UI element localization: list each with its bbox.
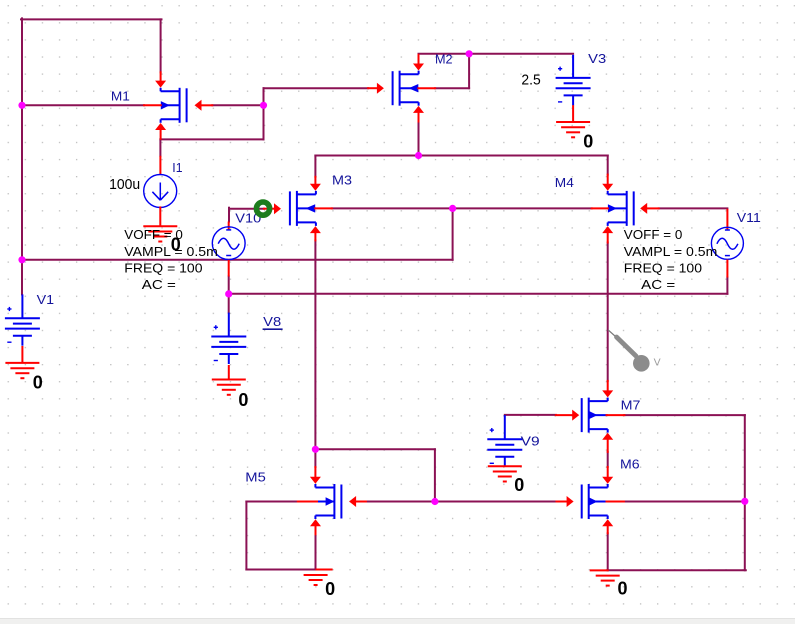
V10 params text (124, 227, 218, 292)
M7 bulk pin (607, 414, 625, 416)
I1 value label 100u (109, 176, 140, 193)
M4 source pin (602, 226, 613, 242)
battery V3 (556, 55, 591, 106)
M6 source pin (602, 519, 613, 533)
M5 source pin (310, 519, 321, 534)
wire M1 gate to node (212, 104, 263, 106)
M2 label (435, 52, 453, 67)
ground 0 below V3 (556, 122, 590, 137)
wire M5 gate to M6 gate (366, 501, 557, 503)
wire bulk rail M3-M4 (332, 207, 592, 209)
svg-text:I1: I1 (172, 160, 182, 175)
svg-text:2.5: 2.5 (521, 71, 540, 88)
V11 label (737, 210, 761, 225)
M3 source pin (310, 226, 321, 240)
M2 bulk pin (418, 87, 435, 89)
svg-text:VAMPL = 0.5m: VAMPL = 0.5m (624, 244, 718, 259)
bottom gray bar (0, 618, 795, 624)
svg-text:VOFF = 0: VOFF = 0 (624, 227, 683, 242)
ground label 0 (M6) (618, 578, 628, 598)
wire M5 bulk loop bottom (246, 569, 315, 571)
V3 label (588, 51, 606, 66)
wire M7 bulk horizontal (624, 414, 744, 416)
M6 gate pin (557, 496, 574, 507)
wire mid rail M3-M2-M4 (315, 155, 607, 157)
ground 0 below V1 (5, 363, 39, 378)
M2 source pin (413, 106, 424, 122)
battery V9 (487, 415, 522, 467)
wire M3 source vertical long (314, 240, 316, 449)
wire M4 source vertical long (607, 243, 609, 381)
wire node A vertical (263, 88, 265, 139)
junction dot 4 (415, 152, 422, 159)
M4 gate pin (640, 203, 659, 214)
ground label 0 (V1) (33, 372, 43, 392)
junction dot 8 (312, 446, 319, 453)
svg-text:0: 0 (33, 372, 43, 392)
voltage probe marker (608, 330, 661, 372)
svg-text:0: 0 (325, 579, 335, 599)
svg-text:V3: V3 (588, 51, 606, 66)
wire left rail vertical to V1 (21, 18, 23, 294)
wire V10 top vertical (228, 208, 230, 222)
wire M6 source to ground (607, 533, 609, 570)
M5 label (245, 469, 265, 484)
transistor M1 (161, 88, 187, 123)
transistor M5 (315, 484, 341, 519)
ground 0 below M5 (304, 575, 328, 585)
M5 gate pin (349, 496, 366, 507)
junction dot 2 (18, 256, 25, 263)
M3 drain pin (310, 177, 321, 191)
M7 gate pin (556, 410, 579, 421)
transistor M7 (582, 398, 608, 433)
wire M5 gate link vertical (434, 449, 436, 501)
ground label 0 (I1) (171, 235, 181, 255)
ground label 0 (M5) (325, 579, 335, 599)
wire M2 bulk horizontal (435, 87, 469, 89)
wire M5 bulk loop horizontal (246, 501, 297, 503)
M5 ground stem red tip (316, 569, 333, 571)
V1 label (37, 292, 55, 307)
wire M6 bulk to right rail (624, 501, 745, 503)
M1 label (111, 89, 130, 104)
M6 bulk pin (607, 501, 624, 503)
transistor M3 (290, 191, 316, 226)
M6 drain pin (602, 467, 613, 484)
transistor M6 (582, 484, 608, 519)
svg-text:M6: M6 (620, 457, 640, 472)
M1 bulk pin (144, 104, 161, 106)
wire M1 source to I1 (159, 139, 161, 155)
wire bulk rail drop (452, 208, 454, 259)
wire M1 source loop horizontal (160, 138, 263, 140)
current marker on M3 gate (256, 202, 269, 215)
junction dot 7 (225, 290, 232, 297)
wire M5 drain stub vertical (314, 449, 316, 467)
wire M4 drain vertical (607, 156, 609, 175)
M6 ground bar (590, 569, 609, 571)
V8 ground stem (228, 365, 230, 380)
svg-text:VOFF = 0: VOFF = 0 (124, 227, 183, 242)
wire M5 drain to gate link horizontal (315, 448, 435, 450)
M6 label (620, 457, 640, 472)
wire M1 drain vertical (160, 19, 162, 72)
transistor M4 (608, 191, 634, 226)
M3 bulk pin (315, 207, 332, 209)
svg-text:M5: M5 (245, 469, 265, 484)
wire bottom ground rail (608, 569, 746, 571)
V1 ground stem (21, 346, 23, 363)
wire M5 bulk loop vertical (245, 502, 247, 570)
sine source V10 (212, 222, 245, 277)
wire V10 bottom to V8 (228, 277, 230, 313)
M5 drain pin (310, 467, 321, 484)
M7 drain pin (602, 381, 613, 398)
wire V9 to M7 gate (505, 414, 556, 416)
M1 drain pin (155, 72, 166, 87)
junction dot 9 (431, 498, 438, 505)
svg-text:V11: V11 (737, 210, 761, 225)
wire V11 bottom riser (726, 278, 728, 294)
svg-text:V1: V1 (37, 292, 55, 307)
sine source V11 (711, 209, 743, 278)
wire M2 source vertical (418, 122, 420, 156)
ground 0 below V9 (488, 466, 522, 481)
I1 label (172, 160, 182, 175)
V11 params text (624, 227, 718, 292)
svg-text:0: 0 (618, 578, 628, 598)
svg-text:V: V (654, 356, 661, 368)
svg-text:FREQ = 100: FREQ = 100 (124, 260, 202, 275)
svg-text:V9: V9 (521, 433, 540, 448)
battery V1 (5, 294, 40, 345)
transistor M2 (393, 71, 419, 106)
svg-text:M4: M4 (555, 175, 574, 190)
junction dot 6 (449, 205, 456, 212)
wire long horizontal V1 net (21, 259, 453, 261)
wire M7 source to M6 drain (607, 452, 609, 467)
svg-text:M7: M7 (621, 397, 641, 412)
current source I1 (144, 156, 177, 226)
svg-text:AC =: AC = (641, 277, 675, 292)
M2 drain pin (413, 55, 424, 71)
wire right rail vertical (744, 415, 746, 570)
wire M4 gate to V11 (659, 207, 728, 209)
M5 bulk pin (298, 501, 317, 503)
ground bars below M6 (596, 576, 620, 586)
M3 label (332, 173, 352, 188)
svg-text:0: 0 (514, 475, 524, 495)
M3 gate pin (264, 203, 281, 214)
wire M1 bulk to left rail (21, 104, 144, 106)
battery V8 (211, 313, 246, 364)
M7 source pin (602, 433, 613, 452)
M4 bulk pin (592, 207, 608, 209)
svg-text:M3: M3 (332, 173, 352, 188)
V3 value label 2.5 (521, 71, 540, 88)
junction dot 10 (741, 498, 748, 505)
svg-text:AC =: AC = (142, 277, 176, 292)
V8 label underlined (263, 314, 283, 330)
M4 drain pin (602, 175, 613, 191)
M4 label (555, 175, 574, 190)
wire M2 drain to V3 top rail (419, 53, 574, 55)
svg-text:FREQ = 100: FREQ = 100 (624, 260, 702, 275)
svg-text:VAMPL = 0.5m: VAMPL = 0.5m (124, 244, 218, 259)
wire VDD top-left horizontal (21, 18, 162, 20)
wire M5 source to ground (315, 534, 317, 569)
junction dot 5 (466, 50, 473, 57)
M1 source pin (155, 123, 166, 139)
wire M3 drain vertical (314, 156, 316, 177)
M1 gate pin (195, 100, 213, 111)
svg-text:0: 0 (583, 131, 593, 151)
V9 label (521, 433, 540, 448)
M7 label (621, 397, 641, 412)
junction dot 3 (260, 102, 267, 109)
wire node A to M2 gate (264, 87, 369, 89)
ground 0 below I1 (143, 226, 177, 241)
ground 0 below V8 (212, 380, 246, 395)
svg-text:M1: M1 (111, 89, 130, 104)
V3 ground stem (572, 105, 574, 122)
wire V10 top horizontal (229, 208, 264, 210)
V10 label (235, 211, 261, 226)
ground label 0 (V8) (238, 390, 248, 410)
wire lower horizontal V8-V11 net (229, 293, 728, 295)
svg-text:0: 0 (238, 390, 248, 410)
junction dot 1 (18, 102, 25, 109)
svg-text:100u: 100u (109, 176, 140, 193)
ground label 0 (V3) (583, 131, 593, 151)
M2 gate pin (368, 83, 384, 94)
wire M2 bulk riser (468, 54, 470, 88)
svg-text:M2: M2 (435, 52, 453, 67)
svg-text:V8: V8 (263, 314, 281, 329)
ground label 0 (V9) (514, 475, 524, 495)
